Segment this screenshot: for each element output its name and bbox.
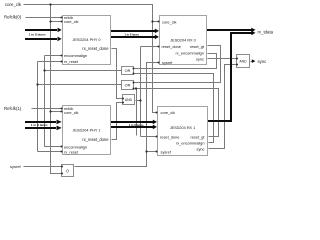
node junction reset_done [139, 99, 141, 101]
svg-text:AND: AND [239, 60, 247, 64]
wire rx_reset to PHY0 [38, 61, 63, 63]
node junction core_clk PHY1 [49, 110, 51, 112]
wire OR2 output to rx_reset [38, 84, 122, 86]
svg-text:core_clk: core_clk [5, 2, 22, 7]
wire bus PHY1 to RX1 a [111, 121, 153, 123]
svg-text:reset_done: reset_done [162, 44, 181, 49]
wire sysref branch to RX1 [147, 151, 158, 153]
svg-text:core_clk: core_clk [162, 19, 177, 24]
block U2 JESD204 RX 0 [160, 16, 207, 65]
wire bus rx_tdata from RX0 [207, 29, 252, 31]
wire rx_reset_done PHY1 to AND G3 [112, 103, 123, 140]
wire bus PHY0 to RX0 a [111, 30, 155, 32]
svg-text:core_clk: core_clk [64, 110, 79, 115]
wire bus PHY0 to RX0 b [111, 36, 155, 38]
svg-text:reset_gt: reset_gt [190, 135, 205, 140]
wire AND G3 output [136, 100, 141, 102]
wire reset_done to RX1 [141, 136, 158, 138]
pin RX0 core_clk [158, 21, 160, 23]
wire rx_encommalign RX0 to OR1 [135, 54, 217, 69]
pin AND G4 in1 [236, 58, 238, 60]
svg-text:core_clk: core_clk [161, 110, 176, 115]
wire encommalign to PHY0 [45, 55, 63, 57]
svg-text:sync: sync [196, 56, 204, 61]
node bus arrow RX0 in a [155, 29, 159, 34]
node junction encommalign [43, 69, 45, 71]
svg-text:1 to 8 lanes: 1 to 8 lanes [31, 123, 48, 127]
svg-text:rx_encommalign: rx_encommalign [176, 141, 205, 146]
node bus arrow PHY1 in b [57, 126, 62, 131]
svg-text:rx_encommalign: rx_encommalign [175, 51, 204, 56]
svg-text:AND: AND [125, 98, 133, 102]
wire core_clk top trunk [24, 5, 158, 113]
wire sync output [251, 61, 254, 63]
pin PHY1 core_clk [61, 111, 63, 113]
wire bus 1 to 8 lanes into PHY1 b [25, 127, 56, 129]
pin PHY0 rx_reset [61, 61, 63, 63]
node bus arrow PHY0 in b [58, 37, 62, 42]
and-gate G4 AND [237, 55, 250, 68]
node bus arrow RX0 in b [155, 35, 159, 40]
wire reset_done vertical [140, 47, 142, 137]
pin RX0 sysref [158, 62, 160, 64]
wire core_clk left vertical [51, 5, 62, 174]
pin OR2 in1 [133, 82, 135, 84]
wire rx_reset to PHY1 [38, 151, 63, 153]
pin RX1 reset_done [156, 136, 158, 138]
svg-text:sync: sync [258, 59, 268, 64]
wire bus 1 to 8 lanes into PHY1 a [25, 121, 56, 123]
pin OR1 in1 [133, 68, 135, 70]
svg-text:core_clk: core_clk [64, 19, 79, 24]
svg-text:Refclk(1): Refclk(1) [4, 106, 22, 111]
and-gate G3 AND [123, 95, 135, 105]
node junction core_clk RX0 [151, 20, 153, 22]
pin PHY0 core_clk [61, 21, 63, 23]
node bus arrow rx_tdata a [251, 28, 255, 33]
pin OR1 in2 [133, 73, 135, 75]
pin AND G3 in1 [122, 98, 124, 100]
svg-text:1 to 8 lanes: 1 to 8 lanes [29, 33, 46, 37]
svg-text:rx_tdata: rx_tdata [258, 29, 274, 34]
svg-text:1 to 8 lanes: 1 to 8 lanes [124, 33, 139, 37]
wire Refclk(1) input [32, 108, 63, 110]
pin RX0 reset_done [158, 46, 160, 48]
svg-text:JESD204 PHY 0: JESD204 PHY 0 [72, 38, 100, 42]
wire reset_gt RX0 to OR2 [135, 46, 221, 83]
pin PHY0 encommalign [61, 55, 63, 57]
wire Refclk(0) input [26, 17, 63, 19]
svg-text:sysref: sysref [162, 60, 173, 65]
wire rx_reset_done PHY0 to AND G3 [112, 49, 123, 99]
or-gate G2 OR [122, 81, 134, 90]
wire sysref input [24, 166, 62, 168]
pin PHY0 refclk [61, 17, 63, 19]
node sync output arrow [252, 59, 256, 63]
wire bus rx_tdata from RX1 [208, 33, 252, 121]
node junction sysref RX1 [145, 150, 147, 152]
flip-flop U5 sysref synchronizer [62, 165, 74, 177]
wire sync RX0 to AND G4 [208, 58, 237, 60]
svg-text:Refclk(0): Refclk(0) [4, 15, 22, 20]
svg-text:JESD204 RX 0: JESD204 RX 0 [170, 39, 196, 43]
svg-text:reset_done: reset_done [160, 135, 179, 140]
block U3 JESD204 PHY 1 [63, 106, 111, 155]
pin PHY1 refclk [61, 108, 63, 110]
pin AND G4 in2 [236, 64, 238, 66]
pin OR2 in2 [133, 88, 135, 90]
pin RX1 core_clk [156, 112, 158, 114]
wire rx_reset vertical [37, 62, 39, 152]
wire encommalign vertical [44, 56, 46, 147]
node bus arrow PHY0 in a [58, 28, 62, 33]
wire bus 1 to 8 lanes into PHY0 b [25, 38, 57, 40]
wire bus PHY1 to RX1 b [111, 126, 153, 128]
svg-text:sysref: sysref [161, 149, 172, 154]
wire sysref distribution [75, 63, 160, 167]
pin U5 sysref in [61, 166, 63, 168]
svg-text:JESD204 RX 1: JESD204 RX 1 [170, 126, 196, 130]
svg-text:reset_gt: reset_gt [190, 44, 205, 49]
svg-text:rx_reset_done: rx_reset_done [82, 137, 109, 142]
node junction core_clk top [49, 3, 51, 5]
wire bus 1 to 8 lanes into PHY0 a [25, 29, 57, 31]
pin RX1 sysref [156, 151, 158, 153]
node junction rx_reset [36, 83, 38, 85]
node junction reset_gt stub [135, 87, 137, 89]
or-gate G1 OR [122, 67, 134, 75]
wire reset_done to RX0 [141, 46, 160, 48]
wire rx_encommalign RX1 to OR1 [135, 74, 214, 143]
node bus arrow RX1 in a [153, 120, 157, 125]
svg-text:1 to 8 lanes: 1 to 8 lanes [129, 123, 144, 127]
svg-text:OR: OR [125, 69, 131, 73]
svg-text:sysref: sysref [10, 164, 22, 169]
node bus arrow RX1 in b [153, 125, 157, 130]
wire reset_gt stub [136, 89, 138, 136]
wire core_clk branch to RX0 [153, 21, 160, 23]
block U1 JESD204 PHY 0 [63, 16, 111, 65]
svg-text:rx_reset_done: rx_reset_done [82, 46, 109, 51]
svg-text:rx_reset: rx_reset [64, 149, 79, 154]
wire core_clk branch to PHY0 [51, 21, 63, 23]
svg-text:sync: sync [197, 146, 205, 151]
wire reset_gt RX1 to OR2 [135, 89, 219, 137]
pin PHY1 encommalign [61, 146, 63, 148]
node junction core_clk PHY0 [49, 20, 51, 22]
svg-text:rx_reset: rx_reset [64, 59, 79, 64]
node bus arrow PHY1 in a [57, 120, 62, 125]
pin U5 clk in [61, 173, 63, 175]
svg-text:encommalign: encommalign [64, 53, 87, 58]
pin AND G3 in2 [122, 102, 124, 104]
wire OR1 output to encommalign [45, 70, 122, 72]
wire sync RX1 to AND G4 [209, 65, 237, 149]
block U4 JESD204 RX 1 [158, 107, 208, 156]
node bus arrow rx_tdata b [251, 31, 255, 36]
pin PHY1 rx_reset [61, 151, 63, 153]
svg-text:JESD204 PHY 1: JESD204 PHY 1 [72, 129, 100, 133]
svg-text:OR: OR [125, 84, 131, 88]
wire core_clk branch to PHY1 [51, 111, 63, 113]
wire encommalign to PHY1 [45, 146, 63, 148]
